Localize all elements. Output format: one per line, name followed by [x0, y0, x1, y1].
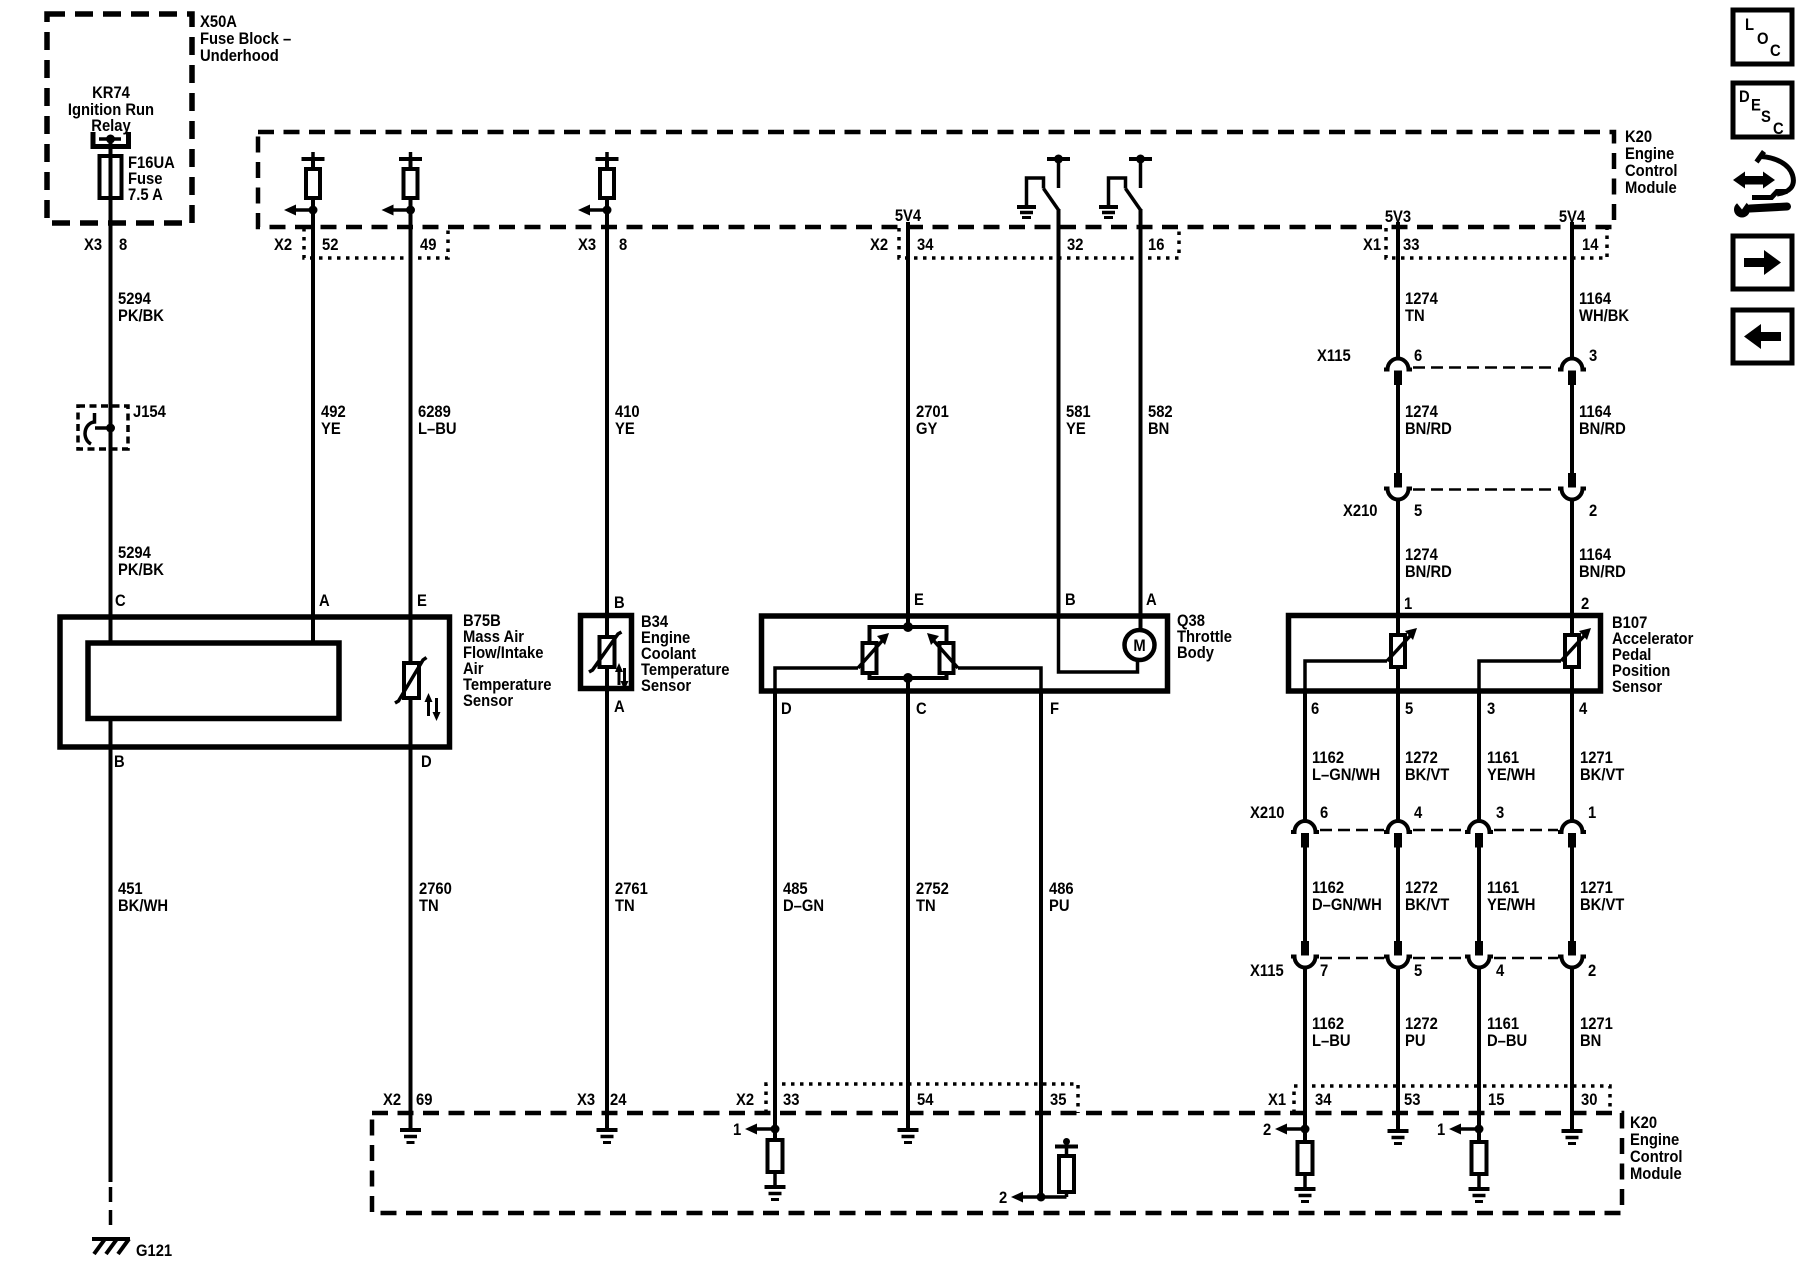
- wire 1161 D-BU X115 to ECM pin 15: [1477, 967, 1481, 1142]
- svg-text:2: 2: [1263, 1121, 1271, 1139]
- label 1162 L-BU: [1312, 1015, 1351, 1050]
- svg-text:BN: BN: [1580, 1032, 1601, 1050]
- icon LOC box: [1733, 10, 1792, 64]
- fuse F16UA: [100, 156, 122, 198]
- label 451 BK/WH: [118, 880, 168, 915]
- svg-text:2: 2: [1581, 595, 1589, 613]
- ECM internal resistor at pin 33: [768, 1140, 783, 1186]
- wire relay to fuse: [109, 139, 113, 156]
- label 5294 PK/BK: [118, 290, 164, 325]
- B107 potentiometer 2: [1561, 628, 1591, 667]
- wire 1164 WH/BK ECM X1 pin 14 to X115 pin 3: [1570, 222, 1574, 359]
- motor M Q38: [1125, 630, 1155, 660]
- connector box X2 pins 33 54 35 (dotted): [766, 1084, 1078, 1113]
- svg-text:X2: X2: [736, 1091, 754, 1109]
- label 1274 BN/RD: [1405, 403, 1452, 438]
- svg-text:14: 14: [1582, 236, 1599, 254]
- svg-text:1274: 1274: [1405, 403, 1438, 421]
- label 410 YE: [615, 403, 640, 438]
- svg-text:1164: 1164: [1579, 290, 1611, 308]
- label 1162 D-GN/WH: [1312, 879, 1382, 914]
- label 1272 BK/VT: [1405, 749, 1450, 784]
- labels X2 34 32 16: [870, 236, 1165, 254]
- svg-text:16: 16: [1148, 236, 1165, 254]
- svg-text:C: C: [1773, 120, 1784, 138]
- label 1161 YE/WH (mid): [1487, 879, 1535, 914]
- svg-text:L–GN/WH: L–GN/WH: [1312, 766, 1380, 784]
- B75B inner element: [88, 643, 339, 719]
- svg-text:1272: 1272: [1405, 1015, 1438, 1033]
- svg-text:Body: Body: [1177, 644, 1214, 662]
- wire Q38 wiper 2 to pin F: [958, 668, 1041, 691]
- svg-text:8: 8: [619, 236, 627, 254]
- B107 potentiometer 1: [1387, 628, 1417, 667]
- icon forward arrow box: [1733, 236, 1792, 289]
- svg-text:TN: TN: [916, 897, 936, 915]
- fuse block X50A (dashed box): [47, 14, 192, 223]
- svg-text:Engine: Engine: [1625, 145, 1674, 163]
- svg-text:1: 1: [1437, 1121, 1445, 1139]
- labels X115 7 5 4 2 (lower): [1250, 962, 1596, 980]
- svg-text:E: E: [1751, 97, 1761, 115]
- svg-text:485: 485: [783, 880, 808, 898]
- svg-text:GY: GY: [916, 420, 938, 438]
- svg-text:B: B: [614, 594, 625, 612]
- B107 wire pin 1 to pin 5: [1396, 617, 1400, 690]
- svg-text:486: 486: [1049, 880, 1074, 898]
- wire 2701 GY ECM X2 pin 34 to Q38 pin E: [906, 222, 910, 627]
- svg-text:582: 582: [1148, 403, 1173, 421]
- svg-text:B: B: [1065, 591, 1076, 609]
- svg-text:Sensor: Sensor: [463, 692, 513, 710]
- wire 1164 BN/RD X210 to B107 pin 2: [1570, 499, 1574, 617]
- ECM driver for pin 52: [284, 152, 325, 216]
- ECM internal resistor at pin 35: [1041, 1138, 1078, 1197]
- svg-text:A: A: [319, 592, 330, 610]
- svg-text:7.5 A: 7.5 A: [128, 186, 163, 204]
- labels X1 33 14: [1363, 236, 1599, 254]
- svg-text:BN/RD: BN/RD: [1405, 563, 1452, 581]
- svg-text:3: 3: [1487, 700, 1495, 718]
- wire 486 PU Q38 pin F to ECM pin 35: [1039, 691, 1043, 1197]
- node arrow 2 at ECM pin 34: [1263, 1121, 1310, 1139]
- svg-text:Engine: Engine: [1630, 1131, 1679, 1149]
- svg-text:6: 6: [1311, 700, 1319, 718]
- thermistor inside B34: [589, 632, 629, 690]
- svg-text:X2: X2: [383, 1091, 401, 1109]
- ground ECM pin 53: [1388, 1131, 1409, 1144]
- label B75B Mass Air Flow/Intake Air Temperature Sensor: [463, 612, 552, 710]
- svg-text:L–BU: L–BU: [418, 420, 457, 438]
- ECM internal switch for pin 16: [1099, 155, 1152, 218]
- label X50A Fuse Block - Underhood: [200, 13, 291, 65]
- svg-text:PK/BK: PK/BK: [118, 307, 164, 325]
- label K20 Engine Control Module (top): [1625, 128, 1678, 197]
- svg-text:Sensor: Sensor: [641, 677, 691, 695]
- icon full circuit jump: [1733, 152, 1793, 218]
- connector X115 pin 2 (in-line): [1558, 941, 1586, 968]
- connector label X3 pin 8 (fuse block): [84, 236, 127, 254]
- label 2761 TN: [615, 880, 648, 915]
- wire 582 BN ECM pin 16 to Q38 pin A: [1139, 209, 1143, 613]
- svg-text:1272: 1272: [1405, 879, 1438, 897]
- labels X2 52 49: [274, 236, 437, 254]
- svg-text:2752: 2752: [916, 880, 949, 898]
- connector X115 pin 6 (in-line): [1384, 359, 1412, 385]
- svg-text:1164: 1164: [1579, 546, 1611, 564]
- wire 1274 BN/RD X210 to B107 pin 1: [1396, 499, 1400, 617]
- svg-text:X210: X210: [1343, 502, 1378, 520]
- wire 1272 BK/VT X210 to X115: [1396, 847, 1400, 942]
- svg-text:3: 3: [1589, 347, 1597, 365]
- svg-text:2761: 2761: [615, 880, 648, 898]
- dashed links X210 lower: [1320, 829, 1558, 832]
- wire 1274 BN/RD X115 to X210: [1396, 385, 1400, 474]
- svg-text:Relay: Relay: [91, 117, 131, 135]
- label 1271 BK/VT: [1580, 749, 1625, 784]
- svg-text:33: 33: [1403, 236, 1420, 254]
- svg-text:D–BU: D–BU: [1487, 1032, 1527, 1050]
- svg-text:BN: BN: [1148, 420, 1169, 438]
- label 1271 BN: [1580, 1015, 1613, 1050]
- svg-text:X50A: X50A: [200, 13, 237, 31]
- label 2752 TN: [916, 880, 949, 915]
- svg-text:6: 6: [1320, 804, 1328, 822]
- label 1164 BN/RD: [1579, 403, 1626, 438]
- svg-text:D–GN: D–GN: [783, 897, 824, 915]
- throttle motor wire pin A: [1139, 613, 1143, 630]
- svg-text:49: 49: [420, 236, 437, 254]
- svg-text:1: 1: [733, 1121, 741, 1139]
- node arrow 2 at ECM pin 35: [999, 1189, 1045, 1207]
- svg-text:32: 32: [1067, 236, 1084, 254]
- wire 1161 YE/WH B107 pin 3 to X210: [1477, 690, 1481, 822]
- ECM K20 top box (dashed): [258, 132, 1614, 227]
- svg-text:1161: 1161: [1487, 1015, 1519, 1033]
- svg-text:1274: 1274: [1405, 546, 1438, 564]
- svg-text:S: S: [1761, 108, 1771, 126]
- throttle motor wire pin B: [1059, 613, 1138, 672]
- throttle body Q38 box: [762, 616, 1168, 691]
- svg-text:X1: X1: [1268, 1091, 1286, 1109]
- labels X2 33 54 35 (ECM bottom): [736, 1091, 1067, 1109]
- ground ECM pin 69: [400, 1130, 421, 1143]
- accelerator pedal sensor B107 box: [1289, 616, 1601, 692]
- label 2701 GY: [916, 403, 949, 438]
- svg-text:1161: 1161: [1487, 879, 1519, 897]
- ground ECM pin 34 resistor: [1295, 1189, 1316, 1202]
- svg-text:34: 34: [1315, 1091, 1332, 1109]
- svg-text:WH/BK: WH/BK: [1579, 307, 1630, 325]
- svg-text:YE/WH: YE/WH: [1487, 896, 1535, 914]
- svg-text:1271: 1271: [1580, 879, 1613, 897]
- icon DESC box: [1733, 83, 1792, 138]
- dashed link X210 upper: [1413, 488, 1557, 491]
- connector X115 pin 5 (in-line): [1384, 941, 1412, 968]
- label 485 D-GN: [783, 880, 824, 915]
- svg-text:2760: 2760: [419, 880, 452, 898]
- ground ECM pin 15 resistor: [1469, 1189, 1490, 1202]
- svg-text:4: 4: [1414, 804, 1422, 822]
- label 1274 TN: [1405, 290, 1438, 325]
- svg-text:5: 5: [1414, 502, 1422, 520]
- dashed link X115 upper: [1413, 366, 1557, 369]
- svg-text:6: 6: [1414, 347, 1422, 365]
- svg-text:D: D: [1739, 88, 1750, 106]
- svg-text:KR74: KR74: [92, 84, 130, 102]
- svg-text:69: 69: [416, 1091, 433, 1109]
- svg-text:BK/VT: BK/VT: [1580, 896, 1625, 914]
- connector box X2 pins 52 49 (dotted): [304, 228, 448, 258]
- wire 1162 L-GN/WH B107 pin 6 to X210: [1303, 690, 1307, 822]
- label B107 Accelerator Pedal Position Sensor: [1612, 614, 1693, 696]
- svg-text:L: L: [1745, 16, 1754, 34]
- svg-text:E: E: [417, 592, 427, 610]
- label 486 PU: [1049, 880, 1074, 915]
- wire 492 YE pin 52 to B75B pin A: [311, 198, 315, 641]
- connector X115 pin 4 (in-line): [1465, 941, 1493, 968]
- connector X210 pin 4 (in-line): [1384, 821, 1412, 847]
- ground G121: [92, 1239, 130, 1254]
- svg-text:PU: PU: [1405, 1032, 1426, 1050]
- connector X115 pin 3 (in-line): [1558, 359, 1586, 385]
- svg-text:M: M: [1133, 637, 1145, 655]
- svg-text:YE: YE: [321, 420, 341, 438]
- wire 485 D-GN Q38 pin D to ECM X2 pin 33: [773, 691, 777, 1140]
- ground ECM pin 54: [898, 1130, 919, 1143]
- svg-text:410: 410: [615, 403, 640, 421]
- connector X210 pin 3 (in-line): [1465, 821, 1493, 847]
- connector X210 pin 6 (in-line): [1291, 821, 1319, 847]
- svg-text:3: 3: [1496, 804, 1504, 822]
- svg-text:J154: J154: [133, 403, 166, 421]
- ground ECM pin 33 resistor: [765, 1187, 786, 1200]
- svg-text:7: 7: [1320, 962, 1328, 980]
- svg-text:X1: X1: [1363, 236, 1381, 254]
- ECM internal resistor at pin 34: [1298, 1142, 1313, 1188]
- svg-text:D: D: [421, 753, 432, 771]
- sensor B75B box: [60, 617, 450, 747]
- svg-text:2: 2: [999, 1189, 1007, 1207]
- label 1161 YE/WH: [1487, 749, 1535, 784]
- labels X3 24 (ECM bottom): [577, 1091, 627, 1109]
- node arrow 1 at ECM pin 33: [733, 1121, 780, 1139]
- ECM internal resistor at pin 15: [1472, 1142, 1487, 1188]
- connector X210 pin 2 (in-line): [1558, 473, 1586, 500]
- svg-text:BK/VT: BK/VT: [1405, 766, 1450, 784]
- svg-text:Underhood: Underhood: [200, 47, 279, 65]
- Q38 TP potentiometer 2: [927, 633, 958, 673]
- sensor B34 box: [581, 616, 632, 689]
- svg-text:PK/BK: PK/BK: [118, 561, 164, 579]
- relay KR74 label: [68, 84, 154, 135]
- svg-text:D–GN/WH: D–GN/WH: [1312, 896, 1382, 914]
- B107 wire pin 2 to pin 4: [1570, 617, 1574, 690]
- label 1161 D-BU: [1487, 1015, 1527, 1050]
- svg-text:1164: 1164: [1579, 403, 1611, 421]
- svg-text:5294: 5294: [118, 544, 151, 562]
- ECM driver for pin 49: [382, 152, 423, 216]
- wire 1164 BN/RD X115 to X210: [1570, 385, 1574, 474]
- labels X210 6 4 3 1 (lower): [1250, 804, 1596, 822]
- wire 1162 D-GN/WH X210 to X115: [1303, 847, 1307, 942]
- svg-text:5: 5: [1414, 962, 1422, 980]
- svg-text:451: 451: [118, 880, 143, 898]
- svg-text:YE: YE: [1066, 420, 1086, 438]
- dashed links X115 lower: [1320, 957, 1558, 960]
- svg-text:34: 34: [917, 236, 934, 254]
- svg-text:C: C: [916, 700, 927, 718]
- svg-text:2701: 2701: [916, 403, 949, 421]
- svg-text:15: 15: [1488, 1091, 1505, 1109]
- ECM K20 bottom box (dashed): [372, 1113, 1622, 1213]
- label K20 Engine Control Module (bottom): [1630, 1114, 1683, 1183]
- svg-text:O: O: [1757, 30, 1769, 48]
- svg-text:Fuse Block –: Fuse Block –: [200, 30, 291, 48]
- wire 1162 L-BU X115 to ECM X1 pin 34: [1303, 967, 1307, 1142]
- wire Q38 wiper 1 to pin D: [775, 668, 858, 691]
- Q38 TP sensor frame: [870, 622, 947, 683]
- wire 1271 BK/VT X210 to X115: [1570, 847, 1574, 942]
- label 492 YE: [321, 403, 346, 438]
- thermistor inside B75B: [395, 658, 441, 722]
- wire 2752 TN Q38 pin C to ECM pin 54: [906, 678, 910, 1128]
- svg-text:Control: Control: [1630, 1148, 1683, 1166]
- svg-text:YE/WH: YE/WH: [1487, 766, 1535, 784]
- svg-text:C: C: [1770, 42, 1781, 60]
- node arrow 1 at ECM pin 15: [1437, 1121, 1484, 1139]
- svg-text:X115: X115: [1317, 347, 1351, 365]
- svg-text:1161: 1161: [1487, 749, 1519, 767]
- svg-text:K20: K20: [1630, 1114, 1657, 1132]
- svg-text:X210: X210: [1250, 804, 1285, 822]
- svg-text:Control: Control: [1625, 162, 1678, 180]
- wire 1272 PU X115 to ECM pin 53: [1396, 967, 1400, 1129]
- svg-text:2: 2: [1589, 502, 1597, 520]
- svg-text:2: 2: [1588, 962, 1596, 980]
- label 1164 BN/RD (lower): [1579, 546, 1626, 581]
- label F16UA Fuse 7.5 A: [128, 154, 175, 204]
- wire 5294 PK/BK from fuse to B75B pin C: [109, 139, 113, 641]
- svg-text:581: 581: [1066, 403, 1091, 421]
- svg-text:53: 53: [1404, 1091, 1421, 1109]
- wire 1161 YE/WH X210 to X115: [1477, 847, 1481, 942]
- wire 6289 L-BU pin 49 to B75B pin E: [409, 198, 413, 663]
- wire 1271 BK/VT B107 pin 4 to X210: [1570, 690, 1574, 822]
- wire 410 YE pin 8 to B34 pin B: [605, 198, 609, 637]
- wire 2761 TN B34 pin A to ECM X3 pin 24: [605, 667, 609, 1128]
- svg-text:K20: K20: [1625, 128, 1652, 146]
- svg-text:8: 8: [119, 236, 127, 254]
- label 1272 BK/VT (mid): [1405, 879, 1450, 914]
- label 1162 L-GN/WH: [1312, 749, 1380, 784]
- svg-text:492: 492: [321, 403, 346, 421]
- svg-text:X2: X2: [274, 236, 292, 254]
- svg-text:L–BU: L–BU: [1312, 1032, 1351, 1050]
- svg-text:Sensor: Sensor: [1612, 678, 1662, 696]
- svg-text:54: 54: [917, 1091, 934, 1109]
- wire 581 YE ECM pin 32 to Q38 pin B: [1057, 209, 1061, 613]
- svg-text:X3: X3: [84, 236, 102, 254]
- svg-text:X2: X2: [870, 236, 888, 254]
- svg-text:BN/RD: BN/RD: [1579, 563, 1626, 581]
- svg-text:4: 4: [1579, 700, 1587, 718]
- svg-text:B: B: [114, 753, 125, 771]
- svg-text:PU: PU: [1049, 897, 1070, 915]
- svg-text:1162: 1162: [1312, 1015, 1344, 1033]
- svg-text:BK/VT: BK/VT: [1580, 766, 1625, 784]
- labels X3 8 (ECM top): [578, 236, 627, 254]
- ground ECM pin 30: [1562, 1131, 1583, 1144]
- wire 1274 TN ECM X1 pin 33 to X115 pin 6: [1396, 222, 1400, 359]
- svg-text:30: 30: [1581, 1091, 1598, 1109]
- B107 wiper 1 wire to pin 6: [1305, 661, 1387, 690]
- svg-text:1271: 1271: [1580, 1015, 1613, 1033]
- svg-text:5294: 5294: [118, 290, 151, 308]
- svg-text:A: A: [614, 698, 625, 716]
- svg-text:4: 4: [1496, 962, 1504, 980]
- Q38 TP potentiometer 1: [858, 633, 889, 673]
- svg-text:35: 35: [1050, 1091, 1067, 1109]
- label Q38 Throttle Body: [1177, 612, 1232, 662]
- svg-text:A: A: [1146, 591, 1157, 609]
- label 1271 BK/VT (mid): [1580, 879, 1625, 914]
- svg-text:BN/RD: BN/RD: [1405, 420, 1452, 438]
- svg-text:1162: 1162: [1312, 749, 1344, 767]
- label 1272 PU: [1405, 1015, 1438, 1050]
- svg-text:TN: TN: [615, 897, 635, 915]
- svg-text:BN/RD: BN/RD: [1579, 420, 1626, 438]
- svg-text:1274: 1274: [1405, 290, 1438, 308]
- splice J154 (dashed box): [78, 406, 128, 449]
- labels X2 69 (ECM bottom): [383, 1091, 433, 1109]
- connector box X2 pins 34 32 16 (dotted): [899, 228, 1179, 258]
- svg-text:BK/VT: BK/VT: [1405, 896, 1450, 914]
- svg-text:Module: Module: [1625, 179, 1677, 197]
- label B34 Engine Coolant Temperature Sensor: [641, 613, 730, 695]
- svg-text:TN: TN: [419, 897, 439, 915]
- svg-text:X3: X3: [577, 1091, 595, 1109]
- svg-text:1: 1: [1404, 595, 1412, 613]
- svg-text:24: 24: [610, 1091, 627, 1109]
- ECM driver for pin 8 (X3): [578, 152, 619, 216]
- svg-text:BK/WH: BK/WH: [118, 897, 168, 915]
- svg-text:E: E: [914, 591, 924, 609]
- labels X1 34 53 15 30 (ECM bottom): [1268, 1091, 1598, 1109]
- svg-text:X3: X3: [578, 236, 596, 254]
- wire 1272 BK/VT B107 pin 5 to X210: [1396, 690, 1400, 822]
- B107 wiper 2 wire to pin 3: [1479, 661, 1561, 690]
- svg-text:33: 33: [783, 1091, 800, 1109]
- svg-text:1: 1: [1588, 804, 1596, 822]
- wire 451 BK/WH from B75B pin B: [109, 720, 113, 1182]
- connector box X1 pins 33 14 (dotted): [1386, 228, 1607, 258]
- svg-text:X115: X115: [1250, 962, 1284, 980]
- svg-text:G121: G121: [136, 1242, 172, 1260]
- wire 2760 TN B75B pin D to ECM X2 pin 69: [409, 698, 413, 1128]
- connector X210 pin 5 (in-line): [1384, 473, 1412, 500]
- icon back arrow box: [1733, 310, 1792, 363]
- svg-text:D: D: [781, 700, 792, 718]
- labels X115 6 3 (upper): [1317, 347, 1597, 365]
- svg-text:C: C: [115, 592, 126, 610]
- wire 1271 BN X115 to ECM pin 30: [1570, 967, 1574, 1129]
- label 1164 WH/BK: [1579, 290, 1630, 325]
- label 6289 L-BU: [418, 403, 457, 438]
- ECM internal switch for pin 32: [1017, 155, 1070, 218]
- relay KR74 contact symbol: [93, 132, 129, 147]
- svg-text:1272: 1272: [1405, 749, 1438, 767]
